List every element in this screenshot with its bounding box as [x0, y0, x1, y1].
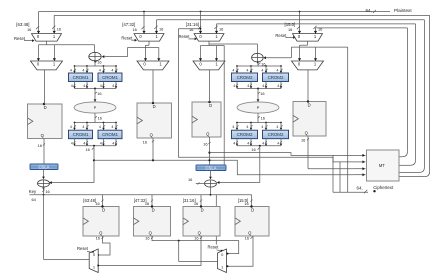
- svg-text:4: 4: [71, 141, 73, 145]
- svg-text:D: D: [201, 207, 204, 212]
- svg-text:Ciphertext: Ciphertext: [373, 185, 394, 190]
- svg-text:4: 4: [261, 125, 263, 129]
- svg-text:16: 16: [189, 27, 193, 32]
- svg-text:D: D: [153, 104, 156, 109]
- svg-text:CSLA: CSLA: [39, 165, 50, 170]
- svg-text:16: 16: [194, 201, 198, 206]
- svg-text:16: 16: [251, 147, 255, 152]
- svg-text:CROM2: CROM2: [237, 132, 253, 137]
- svg-text:[47:32]: [47:32]: [122, 22, 135, 27]
- svg-text:4: 4: [100, 84, 102, 88]
- svg-text:16: 16: [244, 201, 248, 206]
- svg-text:16: 16: [132, 27, 136, 32]
- svg-text:16: 16: [95, 201, 99, 206]
- svg-text:P: P: [257, 106, 260, 110]
- svg-text:16: 16: [45, 189, 49, 194]
- svg-text:CROM1: CROM1: [102, 75, 118, 80]
- svg-text:16: 16: [318, 27, 322, 32]
- svg-text:P: P: [94, 106, 97, 110]
- svg-text:CROM1: CROM1: [102, 132, 118, 137]
- svg-text:4: 4: [276, 69, 278, 73]
- svg-text:4: 4: [247, 141, 249, 145]
- svg-text:16: 16: [188, 177, 192, 182]
- svg-text:4: 4: [82, 125, 84, 129]
- svg-text:4: 4: [276, 125, 278, 129]
- svg-text:4: 4: [71, 84, 73, 88]
- svg-text:[63:48]: [63:48]: [16, 22, 29, 27]
- svg-text:[31:16]: [31:16]: [186, 22, 199, 27]
- svg-text:16: 16: [260, 91, 264, 96]
- svg-text:16: 16: [97, 91, 101, 96]
- svg-text:4: 4: [233, 141, 235, 145]
- svg-text:4: 4: [112, 141, 114, 145]
- svg-text:D: D: [209, 103, 212, 108]
- svg-text:4: 4: [262, 84, 264, 88]
- svg-text:16: 16: [245, 236, 249, 241]
- svg-text:4: 4: [83, 84, 85, 88]
- svg-text:16: 16: [86, 147, 90, 152]
- svg-text:16: 16: [301, 137, 305, 142]
- svg-text:4: 4: [112, 84, 114, 88]
- svg-text:4: 4: [233, 84, 235, 88]
- svg-text:16: 16: [159, 27, 163, 32]
- svg-text:4: 4: [99, 69, 101, 73]
- svg-text:D: D: [251, 207, 254, 212]
- svg-text:16: 16: [194, 236, 198, 241]
- svg-text:16: 16: [143, 140, 147, 145]
- svg-text:Plaintext: Plaintext: [394, 8, 412, 13]
- svg-text:4: 4: [277, 141, 279, 145]
- svg-text:4: 4: [277, 84, 279, 88]
- svg-text:CROM2: CROM2: [268, 75, 284, 80]
- svg-text:D: D: [44, 105, 47, 110]
- svg-text:16: 16: [96, 236, 100, 241]
- svg-text:16: 16: [57, 27, 61, 32]
- svg-text:Reset: Reset: [179, 34, 191, 39]
- svg-text:CROM1: CROM1: [73, 75, 89, 80]
- svg-text:CROM1: CROM1: [73, 132, 89, 137]
- svg-text:4: 4: [111, 125, 113, 129]
- svg-text:Reset: Reset: [208, 245, 220, 250]
- svg-text:Reset: Reset: [77, 246, 89, 251]
- svg-text:D: D: [102, 207, 105, 212]
- svg-text:D: D: [152, 207, 155, 212]
- svg-text:[63:48]: [63:48]: [83, 198, 96, 203]
- svg-text:16: 16: [261, 115, 265, 120]
- svg-text:4: 4: [111, 69, 113, 73]
- svg-text:4: 4: [246, 125, 248, 129]
- svg-text:CSLA: CSLA: [206, 166, 217, 171]
- svg-text:4: 4: [262, 141, 264, 145]
- svg-text:16: 16: [27, 27, 31, 32]
- svg-text:[15:0]: [15:0]: [285, 22, 296, 27]
- svg-text:CROM2: CROM2: [237, 75, 253, 80]
- svg-text:16: 16: [203, 142, 207, 147]
- svg-text:16: 16: [97, 59, 101, 64]
- svg-text:D: D: [308, 102, 311, 107]
- svg-text:4: 4: [83, 141, 85, 145]
- svg-text:4: 4: [99, 125, 101, 129]
- svg-text:16: 16: [288, 27, 292, 32]
- svg-text:4: 4: [232, 125, 234, 129]
- svg-text:16: 16: [38, 143, 42, 148]
- svg-text:4: 4: [100, 141, 102, 145]
- svg-text:Key: Key: [29, 189, 37, 194]
- svg-text:16: 16: [219, 27, 223, 32]
- svg-text:4: 4: [261, 69, 263, 73]
- svg-text:16: 16: [98, 115, 102, 120]
- svg-text:64,: 64,: [366, 8, 372, 13]
- svg-text:Reset: Reset: [275, 33, 287, 38]
- svg-text:4: 4: [247, 84, 249, 88]
- svg-text:4: 4: [232, 69, 234, 73]
- svg-text:64,: 64,: [357, 185, 363, 190]
- svg-text:4: 4: [70, 69, 72, 73]
- svg-text:4: 4: [70, 125, 72, 129]
- svg-text:16: 16: [145, 236, 149, 241]
- svg-text:MT: MT: [379, 163, 385, 168]
- svg-text:4: 4: [246, 69, 248, 73]
- svg-text:CROM2: CROM2: [268, 132, 284, 137]
- svg-text:4: 4: [82, 69, 84, 73]
- svg-text:16: 16: [145, 201, 149, 206]
